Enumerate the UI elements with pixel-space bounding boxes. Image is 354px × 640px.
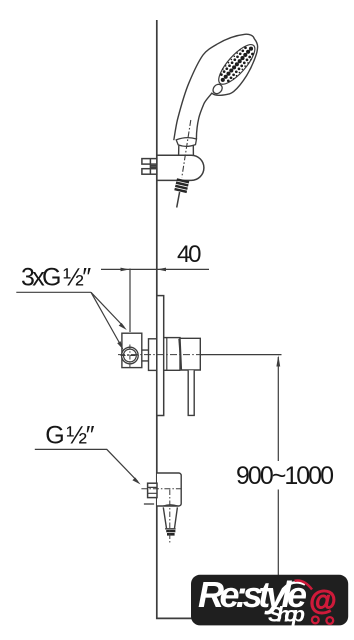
hose below sleeve <box>177 192 180 208</box>
port centrelines <box>121 355 140 357</box>
cart handle <box>295 580 313 589</box>
cartridge head <box>180 338 200 370</box>
handle neck in holder <box>179 145 194 155</box>
style-e white swoosh <box>283 582 305 589</box>
svg-text:3xG ½″: 3xG ½″ <box>21 264 91 292</box>
cart wheels <box>312 617 319 624</box>
handle lever rod <box>188 370 194 415</box>
inlet port circle G1/2 <box>122 347 139 364</box>
svg-text:900~1000: 900~1000 <box>236 462 334 490</box>
hose strain-relief sleeve (ribbed) <box>174 178 189 193</box>
handle end cap <box>176 138 196 147</box>
dimension 40 <box>101 268 209 272</box>
arrowhead right-pointing at x=130 <box>121 268 130 272</box>
extension line from 40 dim down to inlet box <box>129 269 131 333</box>
leader to port circle <box>91 292 122 346</box>
spout shoulder <box>163 505 177 506</box>
svg-text:G ½″: G ½″ <box>45 422 94 450</box>
shower face plate ellipse <box>213 40 260 90</box>
svg-text:Shop: Shop <box>268 603 305 627</box>
dimension 900~1000 vertical <box>276 355 280 575</box>
arrowhead left-pointing at x=157 <box>157 268 166 272</box>
joint slant <box>179 339 181 370</box>
hose nipple <box>166 530 175 536</box>
hand shower head and handle outline <box>174 34 258 140</box>
escutcheon plate <box>157 296 164 416</box>
spray nozzle dots <box>220 46 254 82</box>
Re:style Shop logo <box>191 574 348 627</box>
svg-text:@: @ <box>309 585 336 616</box>
outlet vertical centreline <box>169 490 171 543</box>
outlet centreline horizontal <box>141 488 180 490</box>
leader to box top <box>91 292 124 327</box>
valve body collar <box>164 338 180 371</box>
line from valve centre to dimension <box>200 354 281 356</box>
holder mounting pins <box>142 159 157 175</box>
wire wall line with floor <box>157 20 236 618</box>
outlet box <box>157 473 181 506</box>
hose centreline through holder <box>182 120 191 178</box>
rough-in body behind wall <box>149 339 157 371</box>
shower hook clip <box>211 82 224 95</box>
shower holder capsule <box>157 155 204 180</box>
valve centreline <box>118 354 204 356</box>
neck between box and rough body <box>142 350 149 361</box>
mixer valve group <box>118 269 282 416</box>
inlet connection box (behind wall) <box>122 333 142 367</box>
svg-text:40: 40 <box>177 241 202 268</box>
outlet elbow group <box>141 473 181 543</box>
spout taper <box>163 507 177 528</box>
hex nut <box>148 483 157 497</box>
washer line under nut <box>144 503 154 505</box>
